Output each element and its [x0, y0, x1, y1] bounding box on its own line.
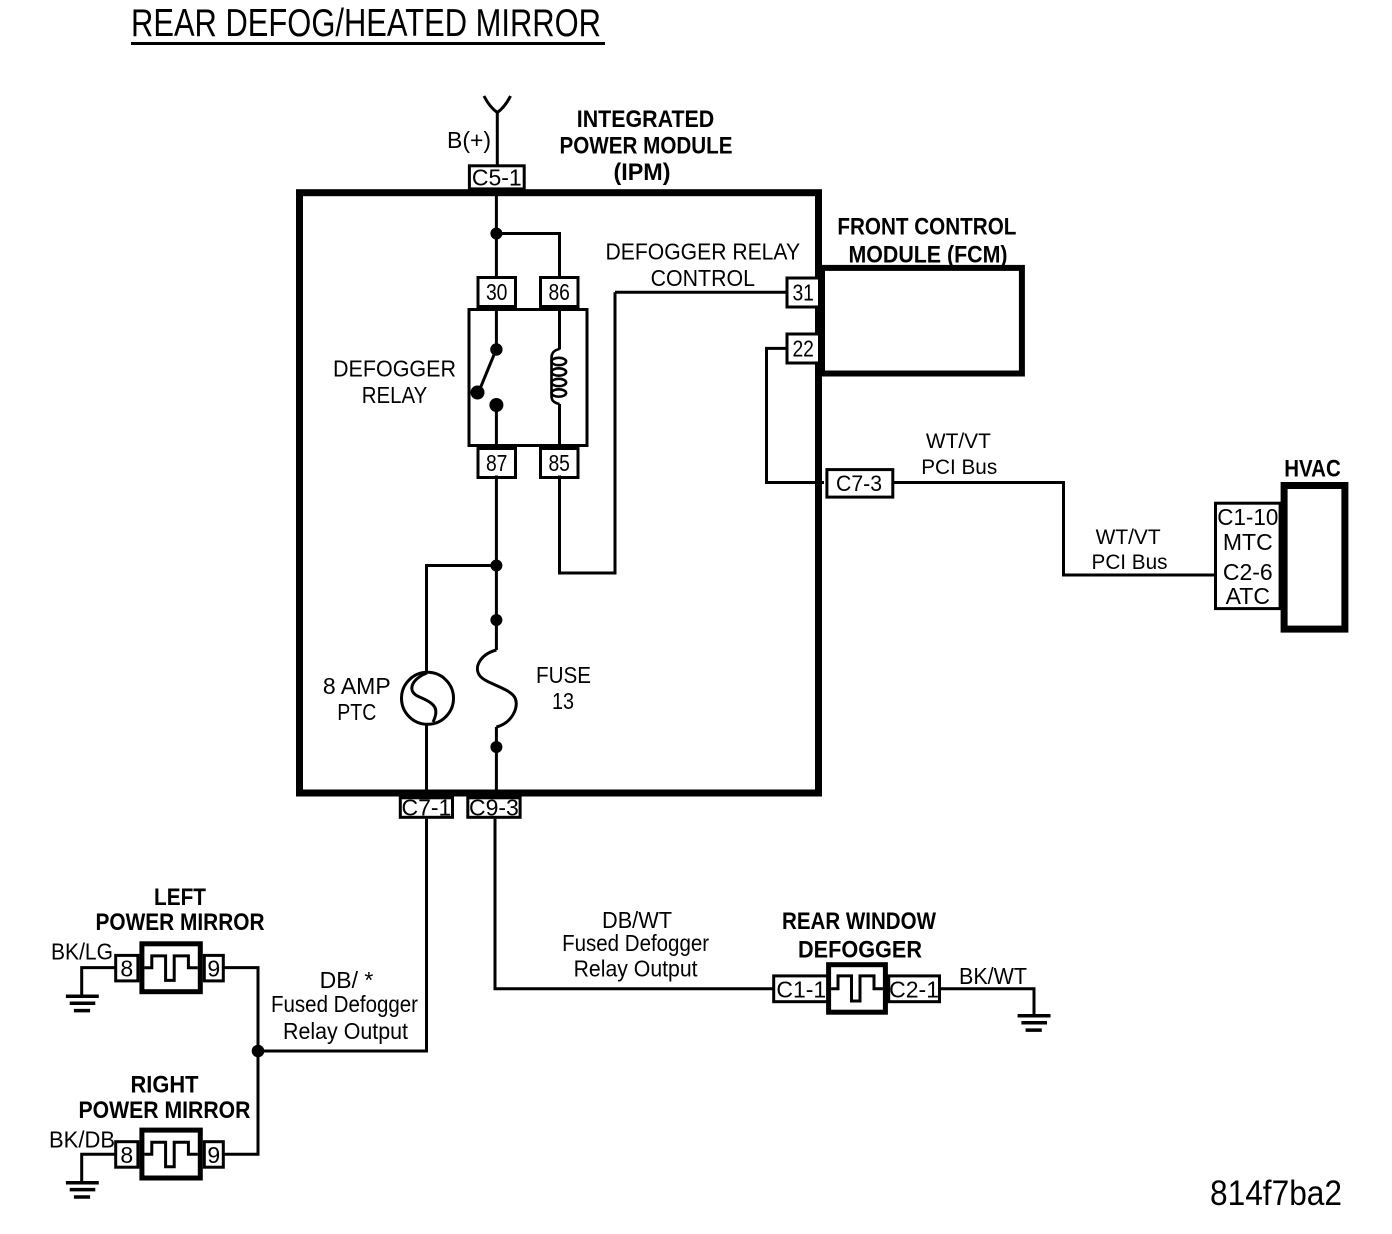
wire terminal 22 to C7-3	[767, 348, 825, 482]
node relay pivot	[471, 386, 485, 400]
pin 8 left mirror	[116, 955, 138, 981]
svg-text:87: 87	[486, 450, 508, 476]
svg-text:FRONT CONTROL: FRONT CONTROL	[837, 213, 1016, 240]
wire C7-1 to mirror junction	[258, 819, 427, 1051]
svg-text:WT/VT: WT/VT	[926, 430, 991, 453]
wire junction to pin 9 right	[223, 1051, 258, 1154]
svg-text:8: 8	[120, 1142, 133, 1168]
svg-text:22: 22	[792, 336, 814, 362]
terminal 22	[787, 334, 820, 363]
terminal 87	[478, 449, 516, 478]
svg-text:MTC: MTC	[1223, 529, 1273, 555]
svg-text:C2-1: C2-1	[889, 977, 939, 1003]
ground right mirror	[66, 1183, 99, 1197]
connector C7-1	[400, 795, 452, 821]
relay coil	[552, 349, 567, 404]
svg-text:C1-1: C1-1	[776, 977, 826, 1003]
wire coil to terminal 85	[558, 404, 561, 448]
fuse FUSE 13	[477, 650, 516, 727]
wire PTC to C7-1	[425, 724, 428, 797]
svg-text:DB/ *: DB/ *	[320, 967, 374, 993]
wire C5-1 into IPM	[495, 189, 498, 234]
connector C1-1	[774, 976, 829, 1003]
node junction top	[490, 228, 502, 240]
wire relay contact to terminal 87	[495, 405, 498, 448]
svg-text:86: 86	[548, 279, 570, 305]
label WT/VT PCI Bus upper	[921, 430, 997, 479]
svg-text:8 AMP: 8 AMP	[323, 673, 391, 699]
svg-text:REAR DEFOG/HEATED MIRROR: REAR DEFOG/HEATED MIRROR	[131, 2, 601, 45]
PTC device 8 AMP	[402, 672, 454, 724]
wire fuse to C9-3	[495, 727, 498, 797]
node relay contact bottom	[489, 398, 503, 412]
terminal 30	[478, 278, 516, 307]
pin 8 right mirror	[116, 1142, 138, 1168]
svg-text:RELAY: RELAY	[362, 382, 428, 408]
label DB/WT Fused Defogger Relay Output	[562, 907, 709, 982]
label RIGHT POWER MIRROR	[79, 1072, 251, 1124]
pin 9 right mirror	[204, 1142, 223, 1168]
svg-text:9: 9	[207, 1142, 220, 1168]
label FRONT CONTROL MODULE (FCM)	[837, 213, 1016, 268]
label DEFOGGER RELAY	[333, 356, 456, 409]
node fuse bottom	[490, 741, 502, 753]
svg-text:C9-3: C9-3	[469, 795, 519, 821]
label DB/ * Fused Defogger Relay Output	[271, 967, 418, 1044]
svg-text:BK/DB: BK/DB	[49, 1127, 115, 1153]
svg-text:C2-6: C2-6	[1223, 559, 1273, 585]
svg-text:31: 31	[792, 280, 814, 306]
svg-text:814f7ba2: 814f7ba2	[1210, 1174, 1342, 1213]
module box HVAC	[1284, 486, 1345, 630]
svg-text:Fused Defogger: Fused Defogger	[562, 930, 709, 956]
wire B(+) to C5-1	[496, 111, 499, 165]
svg-text:C5-1: C5-1	[472, 165, 522, 191]
svg-text:REAR WINDOW: REAR WINDOW	[782, 908, 936, 935]
wire junction to PTC	[427, 566, 497, 674]
connector C9-3	[468, 795, 520, 821]
node fuse top	[490, 614, 502, 626]
heater element rear window defogger	[829, 965, 886, 1013]
relay switch arm	[480, 354, 495, 391]
connector C5-1	[469, 165, 524, 191]
wire pin 9 left to junction	[223, 968, 258, 1051]
svg-text:INTEGRATED: INTEGRATED	[577, 106, 715, 133]
wire pin 8 left to ground	[82, 968, 116, 995]
module box IPM	[300, 193, 819, 793]
connector C7-3	[827, 470, 893, 498]
svg-text:WT/VT: WT/VT	[1096, 526, 1161, 549]
svg-text:13: 13	[552, 688, 574, 714]
svg-text:BK/WT: BK/WT	[959, 963, 1027, 989]
label 8 AMP PTC	[323, 673, 391, 725]
pin 9 left mirror	[204, 955, 223, 981]
label INTEGRATED POWER MODULE (IPM)	[560, 106, 733, 186]
node PTC branch junction	[490, 560, 502, 572]
svg-text:Relay Output: Relay Output	[283, 1018, 409, 1044]
wire terminal 30 to relay contact	[495, 307, 498, 350]
svg-text:DEFOGGER RELAY: DEFOGGER RELAY	[606, 239, 801, 265]
wire terminal 85 to relay control net	[560, 292, 616, 573]
svg-text:C1-10: C1-10	[1217, 504, 1278, 530]
svg-text:BK/LG: BK/LG	[51, 939, 113, 965]
svg-text:DEFOGGER: DEFOGGER	[333, 356, 456, 382]
svg-text:FUSE: FUSE	[536, 662, 591, 688]
svg-text:POWER MIRROR: POWER MIRROR	[79, 1097, 251, 1124]
label DEFOGGER RELAY CONTROL	[606, 239, 801, 292]
wire terminal 87 down	[495, 476, 498, 566]
svg-text:C7-3: C7-3	[836, 471, 882, 496]
svg-text:MODULE (FCM): MODULE (FCM)	[849, 242, 1008, 269]
title REAR DEFOG/HEATED MIRROR	[131, 2, 605, 45]
node relay contact top	[490, 343, 502, 355]
ground left mirror	[66, 996, 99, 1010]
label FUSE 13	[536, 662, 591, 714]
node mirror junction	[252, 1045, 265, 1058]
wire C7-3 to HVAC connector	[893, 483, 1216, 576]
label REAR WINDOW DEFOGGER	[782, 908, 936, 964]
svg-text:9: 9	[207, 956, 220, 982]
module box FCM	[822, 268, 1022, 374]
svg-text:85: 85	[548, 450, 570, 476]
svg-text:RIGHT: RIGHT	[131, 1072, 199, 1099]
label WT/VT PCI Bus lower	[1092, 526, 1168, 574]
svg-text:DEFOGGER: DEFOGGER	[798, 937, 922, 964]
svg-text:CONTROL: CONTROL	[651, 265, 756, 291]
wire junction to fuse	[495, 566, 498, 651]
wire terminal 86 to coil	[558, 307, 561, 350]
svg-text:Fused Defogger: Fused Defogger	[271, 991, 418, 1017]
svg-text:LEFT: LEFT	[154, 884, 206, 911]
svg-text:POWER MODULE: POWER MODULE	[560, 133, 733, 160]
svg-text:8: 8	[120, 956, 133, 982]
svg-text:B(+): B(+)	[447, 127, 491, 153]
terminal 31	[787, 278, 820, 307]
svg-text:POWER MIRROR: POWER MIRROR	[96, 909, 265, 936]
battery feed symbol B(+)	[484, 96, 511, 113]
svg-text:C7-1: C7-1	[401, 795, 451, 821]
label LEFT POWER MIRROR	[96, 884, 265, 936]
wire pin 8 right to ground	[82, 1154, 116, 1181]
svg-text:30: 30	[486, 279, 508, 305]
ground rear window defogger	[1018, 1016, 1051, 1030]
terminal 86	[541, 278, 579, 307]
relay box DEFOGGER RELAY	[469, 310, 587, 446]
connector C1-10 MTC C2-6 ATC	[1216, 503, 1281, 609]
svg-text:ATC: ATC	[1226, 583, 1270, 609]
svg-text:HVAC: HVAC	[1284, 455, 1341, 482]
svg-text:PTC: PTC	[337, 699, 376, 725]
svg-text:Relay Output: Relay Output	[574, 956, 699, 982]
wire junction to terminal 30	[495, 234, 498, 278]
svg-text:(IPM): (IPM)	[614, 159, 671, 186]
svg-text:PCI Bus: PCI Bus	[1092, 551, 1168, 574]
wire C9-3 to rear window defogger	[495, 819, 773, 989]
connector C2-1	[889, 976, 940, 1003]
heater element right power mirror	[142, 1130, 200, 1178]
wire junction to terminal 86	[496, 234, 559, 278]
svg-text:PCI Bus: PCI Bus	[921, 456, 997, 479]
heater element left power mirror	[142, 944, 200, 992]
wire C2-1 to ground	[940, 989, 1035, 1016]
wire relay control to terminal 31	[615, 291, 787, 294]
terminal 85	[541, 449, 579, 478]
